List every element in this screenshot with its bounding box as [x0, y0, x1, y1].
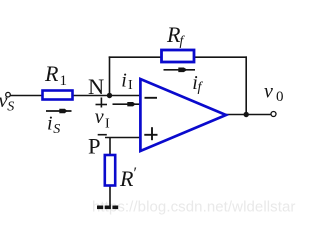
wire R1 to op-amp inverting input [73, 95, 141, 97]
svg-text:v: v [95, 106, 104, 128]
ground [97, 206, 103, 210]
wire feedback top [109, 56, 247, 58]
svg-text:P: P [88, 134, 101, 159]
wire R' to ground [109, 185, 111, 206]
wire input terminal to R1 [10, 95, 42, 97]
minus sign of vI [98, 134, 107, 136]
arrow iI [113, 103, 141, 105]
svg-text:′: ′ [134, 165, 138, 182]
wire node P down to R' [109, 138, 111, 157]
svg-text:I: I [128, 78, 133, 93]
svg-text:R: R [44, 61, 59, 86]
op-amp plus input sign [144, 134, 157, 136]
wire node N up to feedback [109, 56, 111, 96]
svg-text:1: 1 [60, 73, 68, 89]
svg-text:N: N [88, 74, 104, 99]
resistor Rf [162, 50, 195, 62]
input terminal vS [6, 92, 11, 97]
op-amp minus input sign [145, 97, 158, 99]
arrow iS [46, 110, 72, 112]
output terminal [271, 112, 276, 117]
op-amp U1 [140, 79, 226, 151]
svg-text:S: S [7, 100, 14, 115]
plus sign of vI [96, 104, 108, 106]
svg-text:S: S [53, 122, 60, 137]
svg-text:0: 0 [276, 89, 284, 105]
wire op-amp output [225, 114, 272, 116]
resistor R' [105, 155, 115, 186]
svg-text:i: i [47, 113, 53, 135]
svg-text:f: f [198, 80, 204, 95]
output node dot [244, 112, 249, 117]
node N [107, 93, 112, 98]
svg-text:v: v [264, 81, 273, 103]
svg-text:i: i [121, 70, 127, 92]
svg-text:I: I [105, 117, 110, 132]
wire feedback down to output node [245, 56, 247, 114]
svg-text:R: R [119, 166, 134, 191]
wire node P to non-inverting input [105, 137, 141, 139]
resistor R1 [43, 91, 73, 100]
svg-text:https://blog.csdn.net/wldellst: https://blog.csdn.net/wldellstar [92, 199, 296, 216]
arrow if [164, 69, 196, 71]
svg-text:f: f [180, 33, 186, 48]
